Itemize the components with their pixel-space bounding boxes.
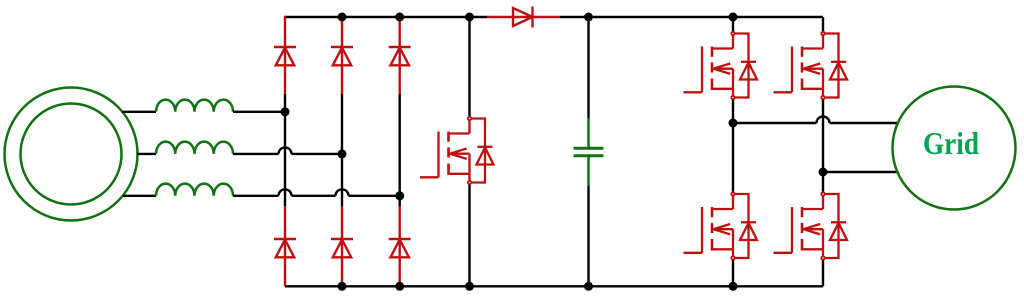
wire phase B to rectifier node [233,153,279,155]
wire to grid upper [830,122,898,124]
svg-text:Grid: Grid [923,126,979,161]
inductor L2 [156,142,233,154]
node bottom rail inverter left [729,282,738,291]
wire phase A from generator [122,111,156,113]
wire inverter right leg lower-middle [822,172,824,192]
capacitor C1 bottom plate [574,154,604,157]
boost diode D7 [513,8,533,26]
wire hop phase C over leg 1 [279,189,292,195]
node top rail inverter left [729,13,738,22]
wire inverter left midpoint to grid [733,122,817,124]
wire inverter right midpoint to grid lower [823,171,897,173]
node phase A leg1 [281,107,290,116]
diode D6 [389,239,411,257]
generator G1 outer circle [5,88,138,221]
diode D5 [331,239,353,257]
capacitor C1 bottom lead green [587,157,590,186]
diode D4 [274,239,296,257]
wire capacitor bottom lead [587,186,589,286]
wire phase B continue [292,153,343,155]
wire inverter left leg upper-middle [732,100,734,123]
node bottom rail leg3 [395,282,404,291]
capacitor C1 top plate [574,147,604,150]
diode D1 [274,47,296,65]
wire capacitor top lead [587,17,589,118]
wire leg3 middle [399,94,401,206]
wire leg2 middle [341,94,343,206]
node inverter left midpoint [729,119,738,128]
wire phase C continue [349,195,400,197]
diode D4 bottom leg1 lead [284,206,286,286]
wire phase B from generator [137,153,156,155]
wire leg1 middle [284,94,286,206]
node phase B leg2 [338,149,347,158]
MOSFET Q2 inverter top-left [684,32,758,99]
node top rail leg3 [395,13,404,22]
node top rail leg2 [338,13,347,22]
inductor L3 [156,184,233,196]
wire hop phase C over leg 2 [336,189,349,195]
wire inverter right leg bottom lead [822,260,824,286]
wire inverter right leg top lead [822,17,824,32]
diode D6 bottom leg3 lead [399,206,401,286]
node bottom rail capacitor [584,282,593,291]
node top rail boost switch [465,13,474,22]
MOSFET Q5 inverter bottom-right [774,192,848,259]
node bottom rail leg2 [338,282,347,291]
wire hop phase B over leg 1 [279,147,292,153]
diode D5 bottom leg2 lead [341,206,343,286]
wire hop over right leg [817,117,830,123]
MOSFET Q1 boost switch [420,117,494,184]
boost diode D7 cathode bar [531,7,533,28]
top DC rail wire right of boost diode [560,16,823,18]
top DC rail wire [285,16,487,18]
wire inverter left leg lower-middle [732,123,734,192]
bottom DC rail wire [285,285,823,287]
boost diode D7 lead [487,16,560,18]
inductor L1 [156,100,233,112]
node inverter right midpoint [819,168,828,177]
diode D2 top leg2 lead [341,17,343,94]
node phase C leg3 [395,191,404,200]
MOSFET Q3 inverter top-right [774,32,848,99]
wire boost switch drain lead [468,17,470,116]
wire phase A to rectifier node [233,111,285,113]
wire phase C to rectifier node [233,195,279,197]
wire inverter left leg bottom lead [732,260,734,286]
diode D3 top leg3 lead [399,17,401,94]
MOSFET Q4 inverter bottom-left [684,192,758,259]
grid circle [893,87,1016,210]
diode D1 top leg1 lead [284,16,286,94]
wire inverter left leg top lead [732,17,734,32]
generator G1 inner circle [21,104,122,205]
node bottom rail boost switch [465,282,474,291]
wire phase C between hops [292,195,336,197]
wire phase C from generator [123,195,156,197]
node top rail capacitor [584,13,593,22]
wire inverter right leg upper-middle [822,100,824,172]
wire boost switch source lead [468,185,470,286]
diode D2 [331,47,353,65]
capacitor C1 top lead green [587,118,590,147]
diode D3 [389,47,411,65]
